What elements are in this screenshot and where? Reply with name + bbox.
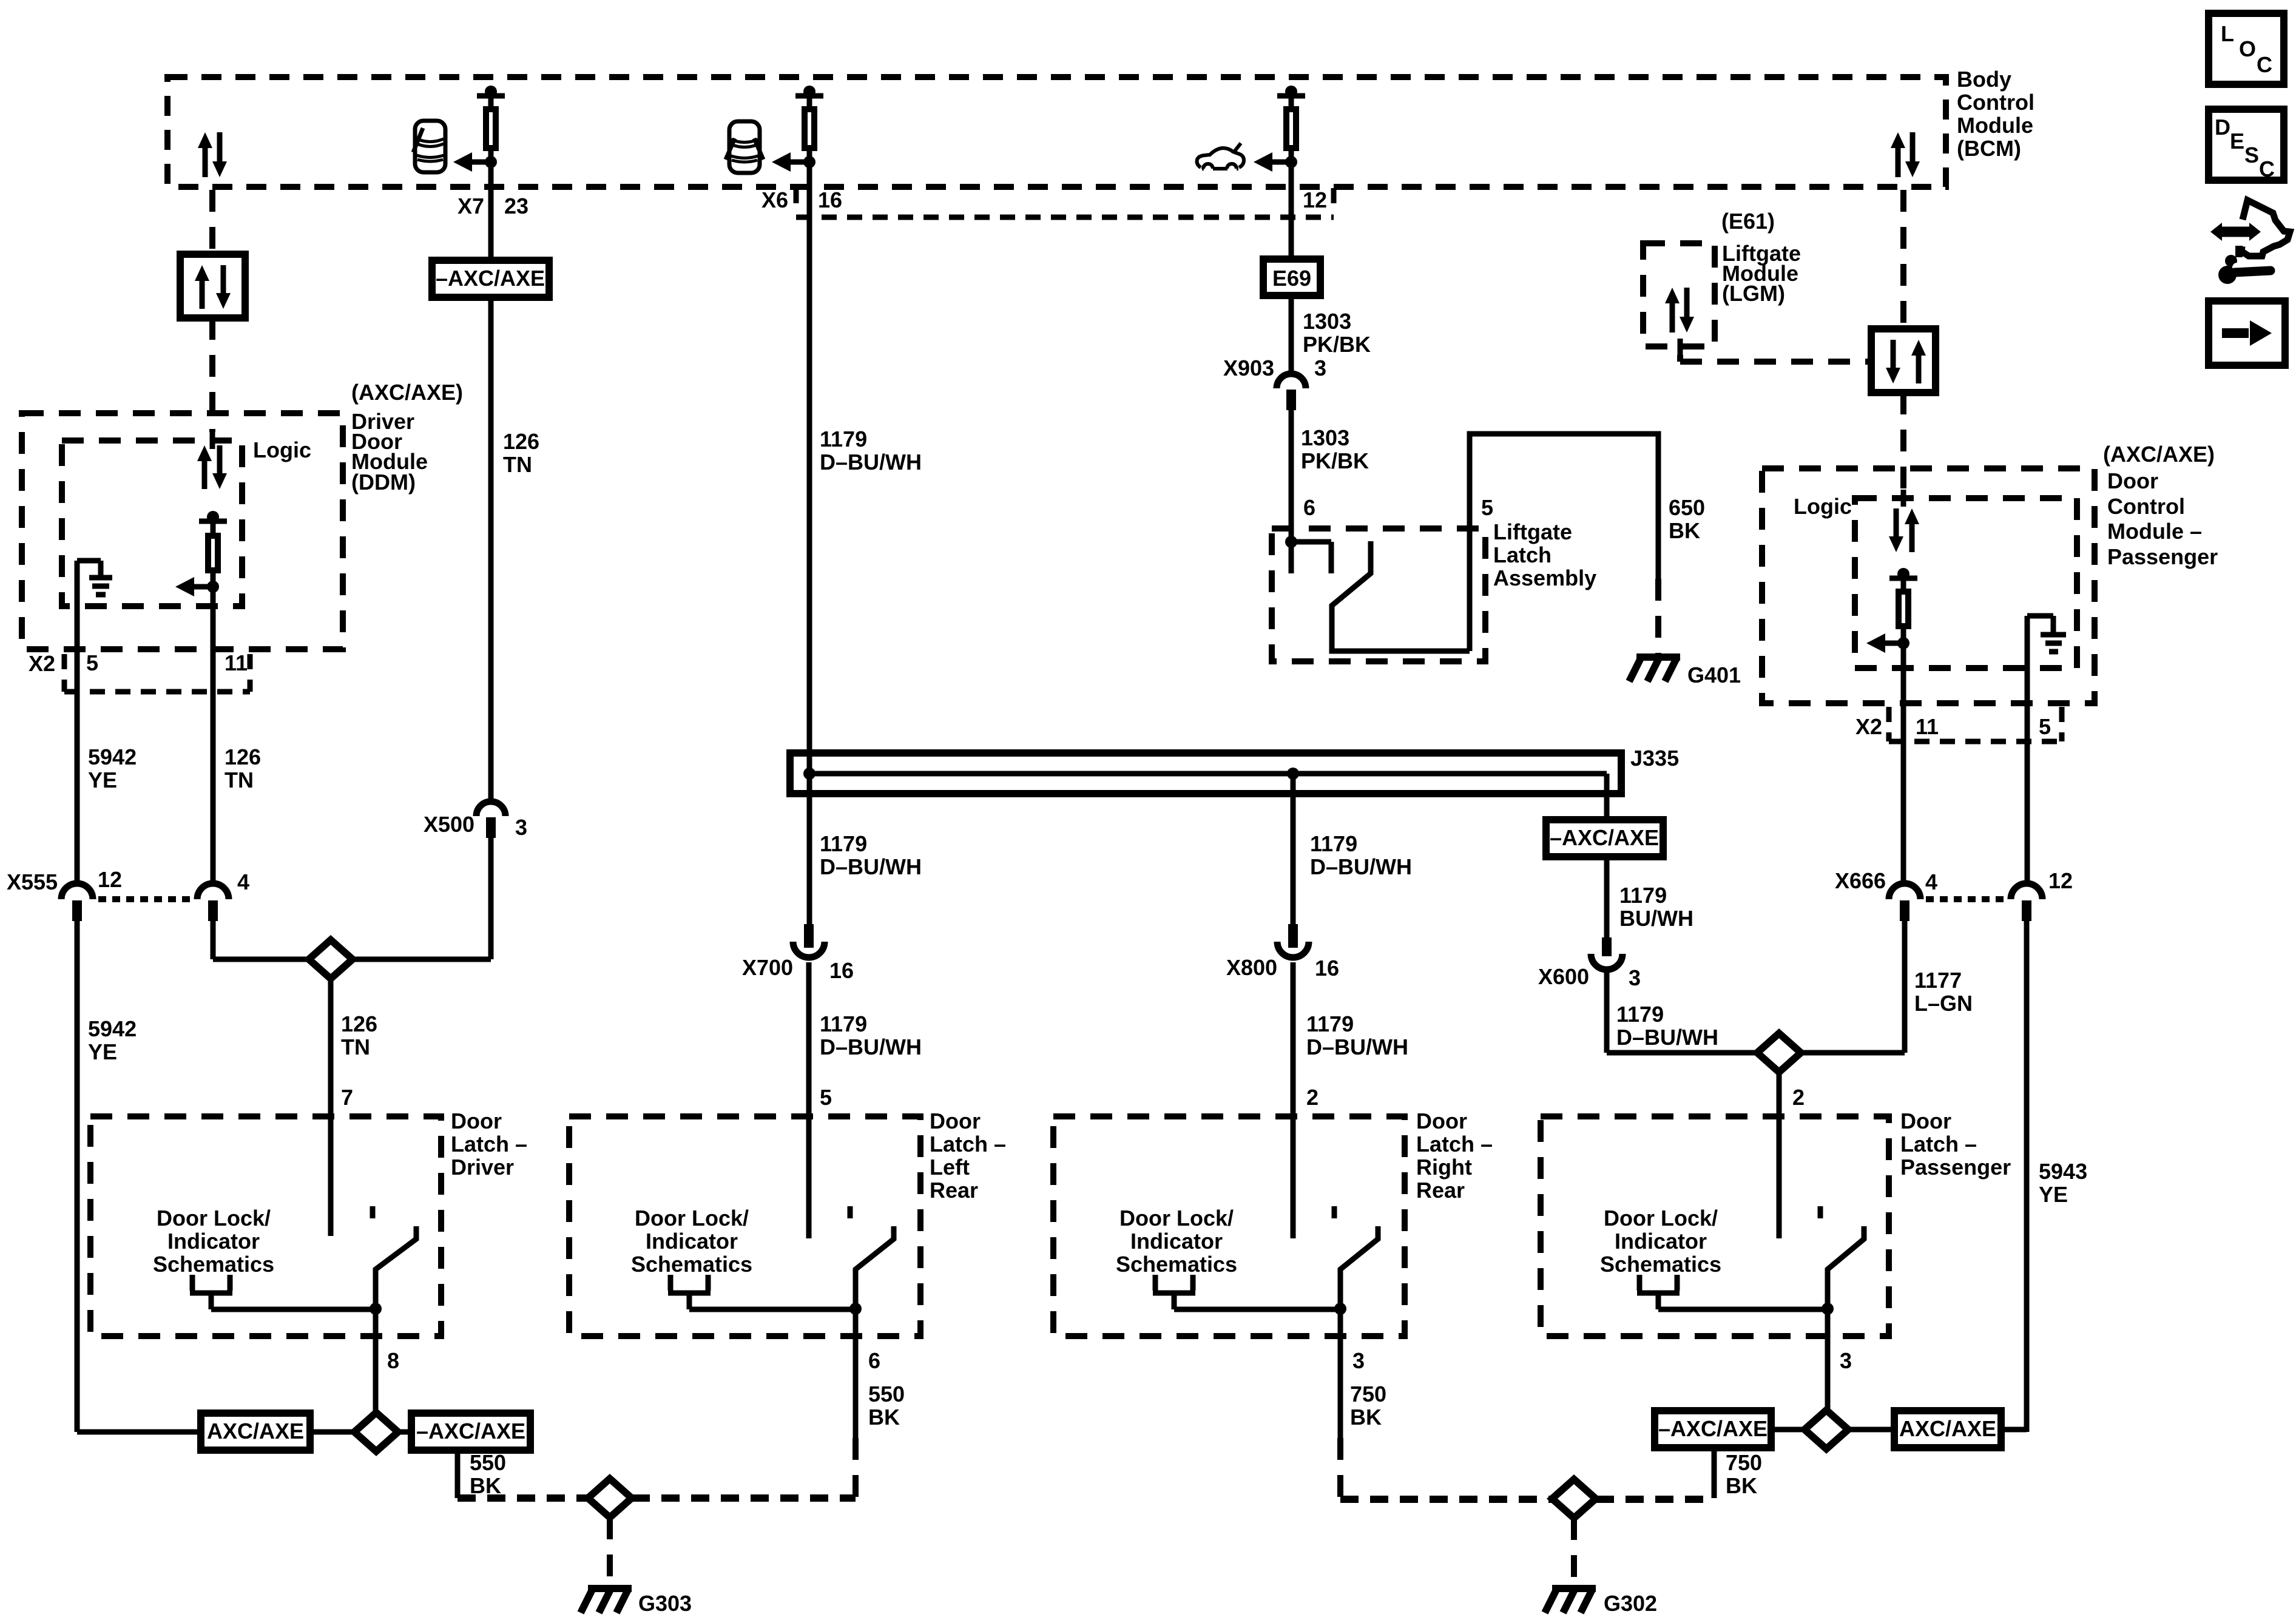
svg-text:BK: BK [470, 1473, 501, 1498]
svg-text:Liftgate: Liftgate [1493, 519, 1572, 544]
svg-text:TN: TN [503, 452, 532, 477]
svg-text:Module –: Module – [2107, 519, 2202, 544]
svg-text:12: 12 [1303, 187, 1327, 212]
svg-text:Indicator: Indicator [1130, 1229, 1223, 1254]
svg-text:750: 750 [1350, 1382, 1386, 1406]
svg-text:Door Lock/: Door Lock/ [157, 1206, 271, 1230]
svg-text:Passenger: Passenger [1900, 1155, 2011, 1180]
svg-text:(E61): (E61) [1721, 209, 1775, 234]
svg-text:YE: YE [88, 1039, 117, 1064]
svg-text:1179: 1179 [1306, 1011, 1354, 1036]
svg-text:Rear: Rear [1416, 1178, 1465, 1203]
svg-text:L–GN: L–GN [1914, 991, 1973, 1016]
svg-text:Schematics: Schematics [153, 1252, 274, 1277]
svg-text:5: 5 [1481, 495, 1493, 520]
svg-text:X666: X666 [1835, 868, 1886, 893]
svg-text:E69: E69 [1272, 266, 1311, 291]
svg-text:Right: Right [1416, 1155, 1472, 1180]
svg-text:5943: 5943 [2039, 1159, 2087, 1184]
svg-text:Door: Door [451, 1109, 502, 1133]
svg-text:Door: Door [1416, 1109, 1467, 1133]
svg-text:O: O [2239, 36, 2256, 61]
svg-text:23: 23 [504, 194, 528, 218]
svg-text:Door: Door [930, 1109, 981, 1133]
svg-text:5942: 5942 [88, 1016, 137, 1041]
svg-text:AXC/AXE: AXC/AXE [207, 1419, 304, 1443]
svg-text:C: C [2257, 52, 2272, 77]
svg-text:BK: BK [868, 1405, 900, 1430]
svg-text:550: 550 [470, 1450, 506, 1475]
svg-text:1179: 1179 [1310, 831, 1357, 856]
svg-text:S: S [2244, 143, 2259, 167]
svg-text:X555: X555 [7, 869, 58, 894]
svg-text:D–BU/WH: D–BU/WH [1616, 1025, 1718, 1050]
svg-text:12: 12 [2048, 868, 2073, 893]
svg-text:–AXC/AXE: –AXC/AXE [436, 266, 545, 291]
svg-text:X2: X2 [1855, 714, 1882, 739]
svg-text:Latch –: Latch – [451, 1132, 527, 1156]
svg-text:X600: X600 [1538, 964, 1589, 989]
svg-text:550: 550 [868, 1382, 905, 1406]
svg-text:(AXC/AXE): (AXC/AXE) [351, 380, 463, 405]
svg-text:C: C [2259, 157, 2275, 181]
svg-text:X903: X903 [1223, 356, 1274, 380]
svg-text:1179: 1179 [820, 427, 867, 451]
svg-text:650: 650 [1669, 495, 1705, 520]
svg-text:4: 4 [237, 869, 249, 894]
svg-text:D–BU/WH: D–BU/WH [1310, 854, 1412, 879]
svg-text:D: D [2215, 115, 2230, 140]
svg-text:Indicator: Indicator [167, 1229, 260, 1254]
svg-text:Door Lock/: Door Lock/ [635, 1206, 749, 1230]
svg-text:–AXC/AXE: –AXC/AXE [1550, 825, 1659, 850]
svg-text:126: 126 [341, 1011, 377, 1036]
svg-text:AXC/AXE: AXC/AXE [1899, 1416, 1996, 1441]
svg-text:–AXC/AXE: –AXC/AXE [416, 1419, 525, 1443]
svg-text:D–BU/WH: D–BU/WH [820, 854, 922, 879]
svg-text:1179: 1179 [1616, 1002, 1664, 1027]
svg-text:Logic: Logic [253, 437, 311, 462]
svg-text:Latch –: Latch – [1416, 1132, 1493, 1156]
svg-text:L: L [2221, 21, 2234, 46]
svg-text:Logic: Logic [1794, 494, 1852, 519]
svg-text:TN: TN [225, 768, 254, 792]
svg-text:G302: G302 [1604, 1591, 1657, 1616]
svg-text:Body: Body [1957, 67, 2011, 92]
svg-text:5: 5 [86, 650, 98, 675]
svg-text:Door Lock/: Door Lock/ [1119, 1206, 1234, 1230]
svg-text:Latch –: Latch – [1900, 1132, 1977, 1156]
svg-text:Control: Control [1957, 90, 2034, 115]
svg-text:1179: 1179 [820, 1011, 867, 1036]
svg-text:1179: 1179 [1619, 883, 1667, 908]
svg-text:BK: BK [1669, 518, 1700, 543]
svg-text:3: 3 [1629, 965, 1641, 990]
svg-text:BK: BK [1350, 1405, 1382, 1430]
svg-text:X500: X500 [424, 812, 474, 837]
svg-text:Left: Left [930, 1155, 970, 1180]
svg-text:TN: TN [341, 1035, 370, 1059]
svg-text:Indicator: Indicator [646, 1229, 738, 1254]
svg-text:5942: 5942 [88, 744, 137, 769]
svg-text:3: 3 [1352, 1348, 1365, 1373]
svg-text:Passenger: Passenger [2107, 544, 2218, 569]
svg-text:PK/BK: PK/BK [1303, 332, 1371, 357]
svg-text:(LGM): (LGM) [1722, 281, 1785, 306]
svg-text:Door: Door [1900, 1109, 1951, 1133]
svg-text:BK: BK [1726, 1473, 1757, 1498]
svg-text:Schematics: Schematics [631, 1252, 752, 1277]
svg-text:12: 12 [98, 867, 122, 892]
svg-text:Schematics: Schematics [1116, 1252, 1237, 1277]
svg-text:X800: X800 [1226, 955, 1277, 980]
svg-text:5: 5 [2039, 714, 2051, 739]
svg-text:(BCM): (BCM) [1957, 136, 2021, 161]
svg-text:Door: Door [2107, 468, 2158, 493]
svg-text:3: 3 [515, 815, 527, 840]
svg-text:3: 3 [1840, 1348, 1852, 1373]
svg-text:D–BU/WH: D–BU/WH [820, 1035, 922, 1059]
svg-text:PK/BK: PK/BK [1301, 448, 1369, 473]
svg-text:G303: G303 [638, 1591, 692, 1616]
svg-text:11: 11 [225, 650, 248, 675]
svg-text:YE: YE [2039, 1182, 2068, 1207]
svg-text:5: 5 [820, 1085, 832, 1110]
svg-text:(AXC/AXE): (AXC/AXE) [2103, 442, 2215, 467]
svg-text:YE: YE [88, 768, 117, 792]
svg-text:16: 16 [829, 958, 854, 983]
svg-text:Latch –: Latch – [930, 1132, 1006, 1156]
svg-text:Rear: Rear [930, 1178, 978, 1203]
svg-text:Indicator: Indicator [1615, 1229, 1707, 1254]
svg-text:X7: X7 [458, 194, 484, 218]
svg-text:G401: G401 [1687, 663, 1741, 687]
svg-text:126: 126 [503, 429, 539, 454]
svg-text:16: 16 [1315, 956, 1339, 981]
svg-text:X2: X2 [29, 651, 55, 676]
svg-text:D–BU/WH: D–BU/WH [1306, 1035, 1408, 1059]
svg-text:Driver: Driver [451, 1155, 514, 1180]
svg-text:1177: 1177 [1914, 968, 1962, 993]
svg-text:16: 16 [818, 187, 842, 212]
svg-text:1303: 1303 [1301, 425, 1349, 450]
svg-text:Schematics: Schematics [1600, 1252, 1721, 1277]
svg-text:Latch: Latch [1493, 542, 1551, 567]
svg-text:Module: Module [1957, 113, 2033, 138]
svg-text:1179: 1179 [820, 831, 867, 856]
svg-text:J335: J335 [1630, 746, 1679, 771]
svg-text:1303: 1303 [1303, 309, 1351, 334]
svg-text:BU/WH: BU/WH [1619, 906, 1693, 931]
svg-text:6: 6 [1303, 495, 1315, 520]
svg-text:X700: X700 [742, 955, 793, 980]
svg-text:X6: X6 [761, 187, 788, 212]
svg-text:E: E [2230, 129, 2244, 154]
svg-text:Assembly: Assembly [1493, 565, 1596, 590]
svg-text:D–BU/WH: D–BU/WH [820, 450, 922, 474]
svg-text:750: 750 [1726, 1450, 1762, 1475]
svg-text:126: 126 [225, 744, 261, 769]
svg-text:3: 3 [1314, 356, 1326, 380]
svg-text:11: 11 [1916, 714, 1939, 739]
svg-text:(DDM): (DDM) [351, 470, 416, 495]
svg-text:7: 7 [341, 1085, 353, 1110]
svg-text:4: 4 [1925, 869, 1937, 894]
svg-text:8: 8 [387, 1348, 399, 1373]
svg-text:6: 6 [868, 1348, 880, 1373]
svg-text:Door Lock/: Door Lock/ [1604, 1206, 1718, 1230]
svg-text:2: 2 [1792, 1085, 1805, 1110]
svg-text:2: 2 [1306, 1085, 1319, 1110]
svg-text:Control: Control [2107, 494, 2185, 519]
svg-text:–AXC/AXE: –AXC/AXE [1658, 1416, 1768, 1441]
